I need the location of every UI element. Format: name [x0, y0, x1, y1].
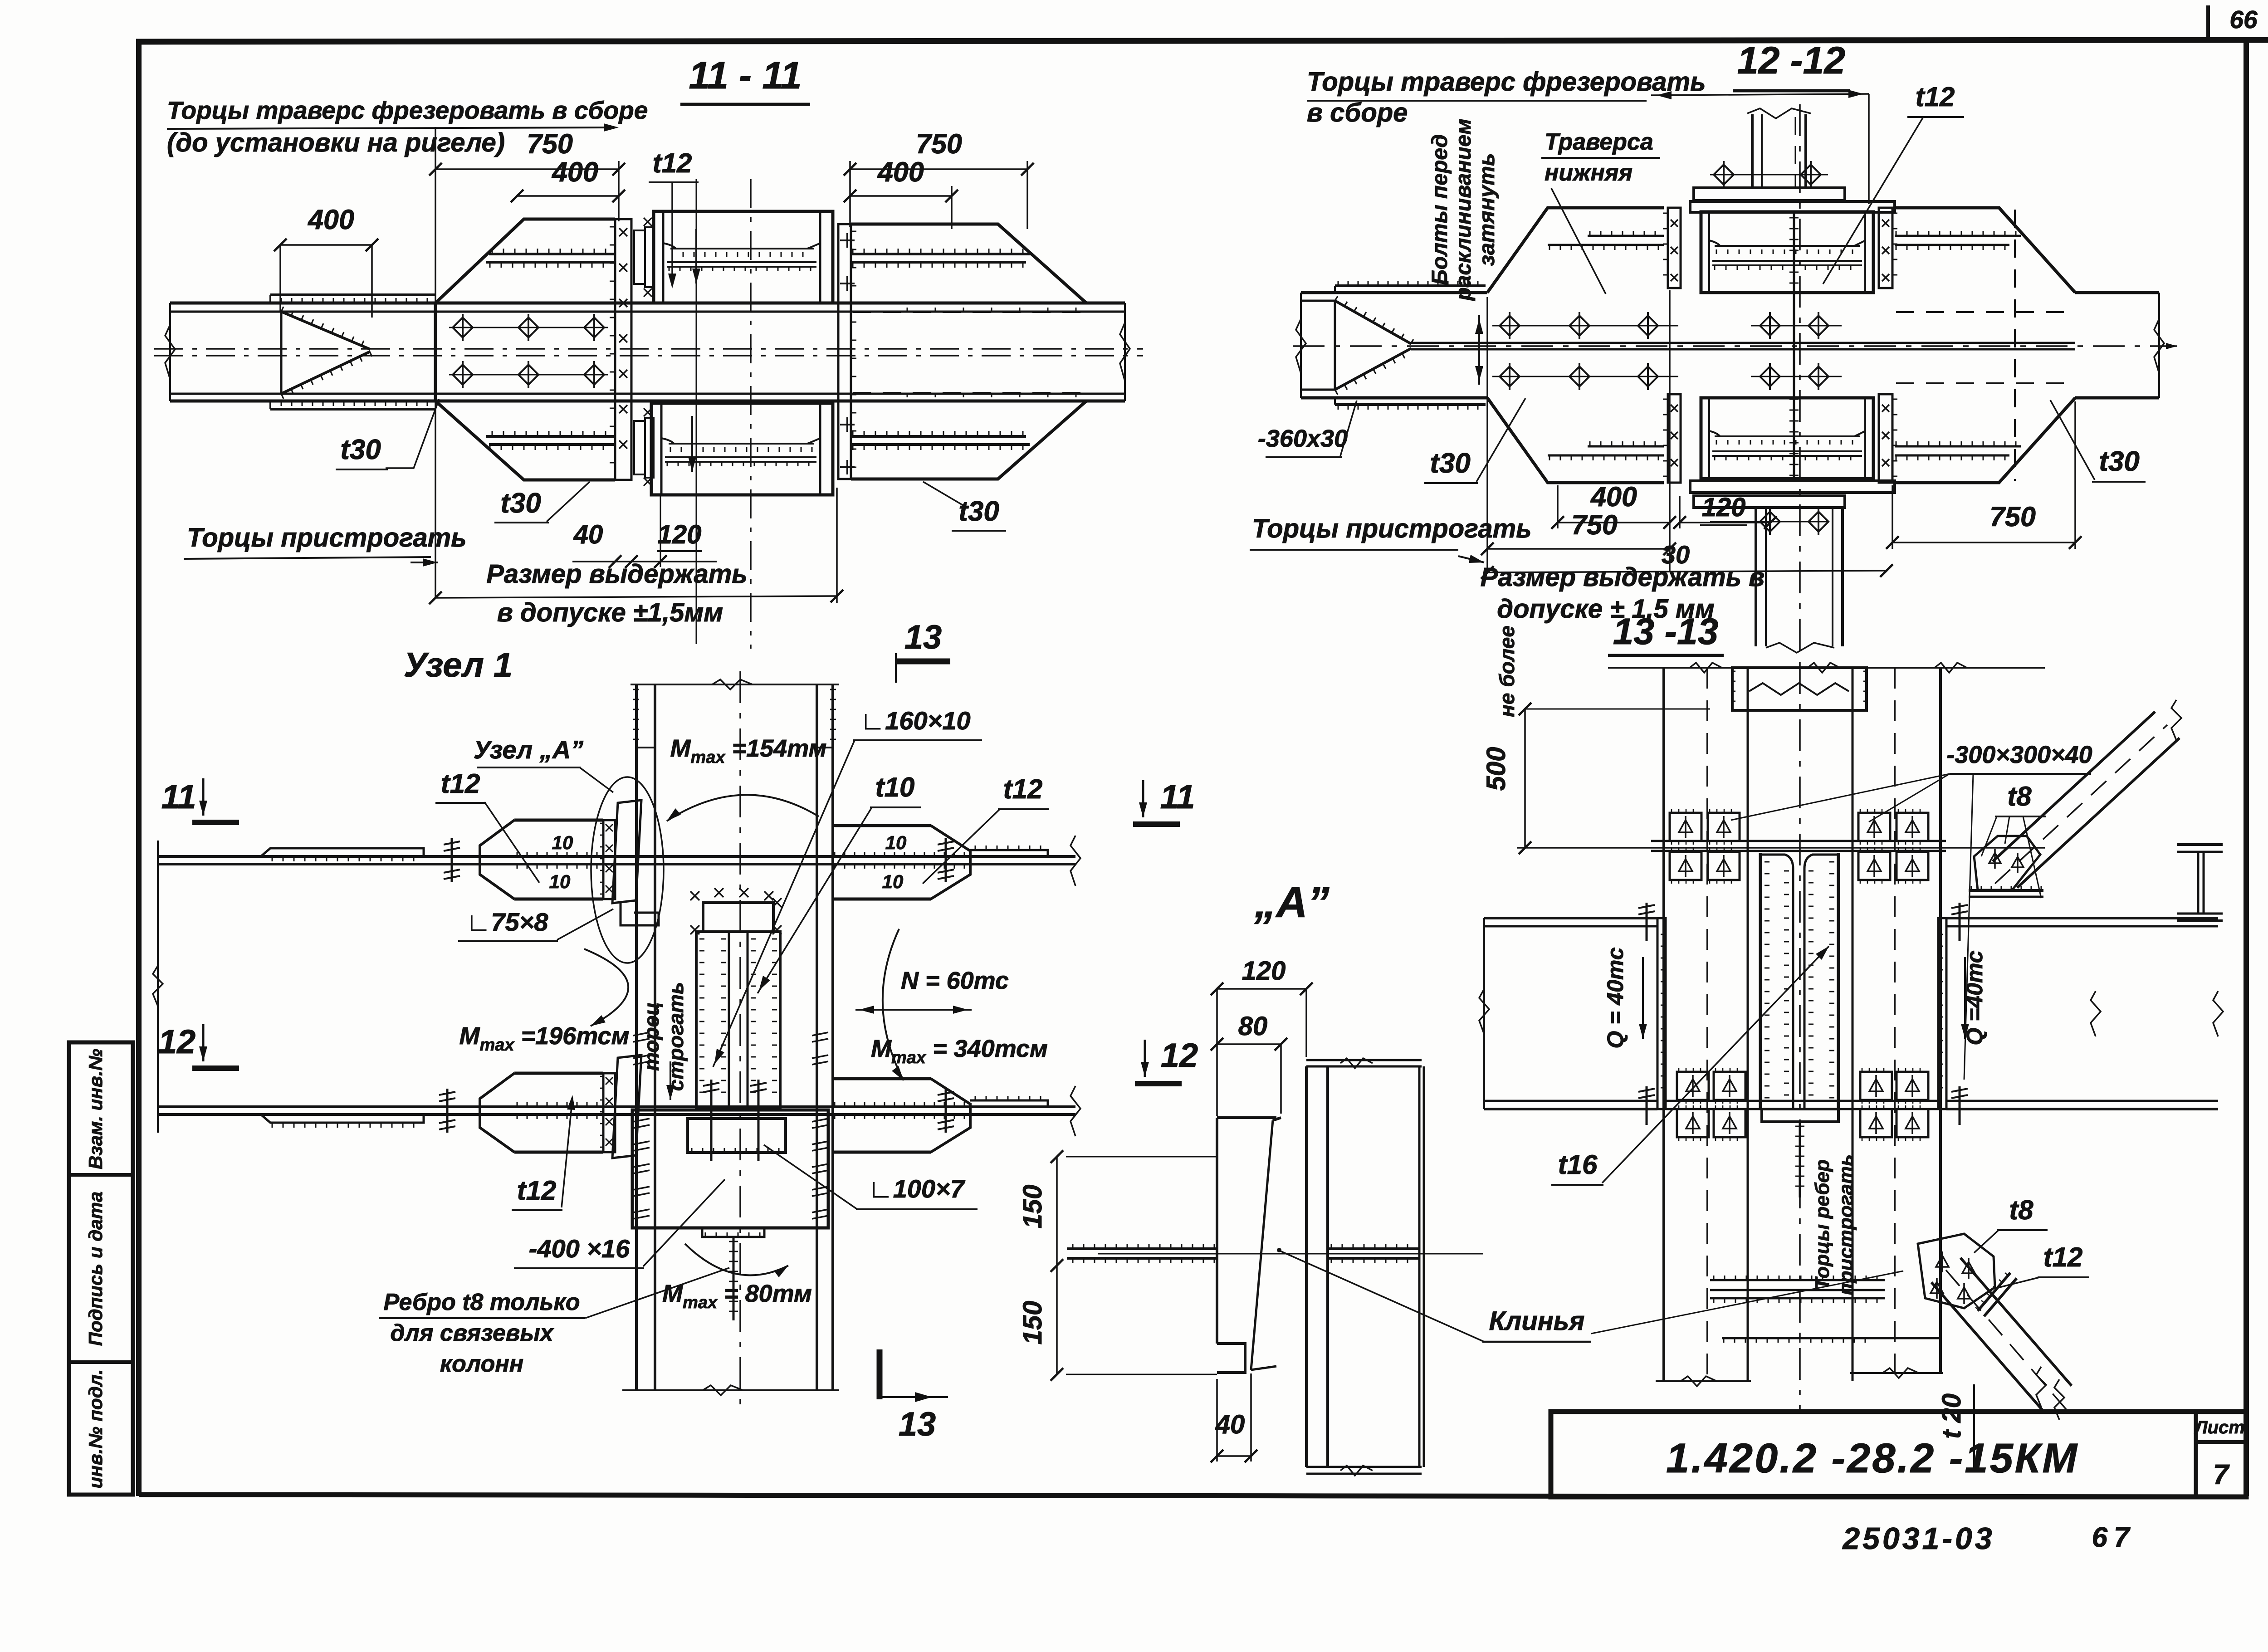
svg-text:120: 120	[1242, 956, 1286, 986]
svg-text:t30: t30	[2099, 446, 2140, 477]
svg-text:t12: t12	[653, 148, 692, 178]
left octagon 12-12	[1487, 208, 1664, 293]
lower column stub 12-12	[1694, 496, 1845, 508]
right hexagon fish plate upper beam	[833, 824, 931, 827]
svg-text:750: 750	[1571, 509, 1618, 540]
sheet border frame	[136, 40, 2268, 42]
bolts left beam end	[1646, 903, 1648, 941]
traverse flanges right octagon	[1895, 235, 2021, 237]
svg-text:Узел „А”: Узел „А”	[474, 735, 583, 764]
svg-text:t12: t12	[2043, 1242, 2083, 1272]
svg-text:Подпись и дата: Подпись и дата	[85, 1192, 106, 1346]
upper cover strip left	[261, 848, 424, 856]
stiffener bottom plate	[1762, 1109, 1838, 1122]
column stub I-beam torets strogat	[696, 932, 780, 1107]
svg-text:затянуть: затянуть	[1475, 153, 1499, 266]
svg-text:Траверса: Траверса	[1545, 129, 1653, 155]
beam right end 12-12	[2158, 293, 2160, 398]
svg-text:40: 40	[573, 520, 603, 549]
column beam 11-11 outline	[170, 302, 1125, 305]
column bottom edges 13-13	[1656, 1380, 1751, 1382]
right gusset octagon t30	[851, 224, 1086, 303]
cover strip below beam left	[270, 408, 435, 411]
I-beam section symbol right	[2177, 843, 2223, 846]
svg-text:13: 13	[899, 1405, 936, 1443]
svg-text:торец: торец	[640, 1002, 663, 1071]
right octagon 12-12	[1895, 208, 2075, 293]
centre axis 12-12	[1799, 104, 1801, 659]
fish mouth milled notch	[281, 312, 370, 349]
svg-text:Лист: Лист	[2194, 1417, 2245, 1437]
flange strip through column 13-13	[1666, 1100, 1938, 1102]
dimension 150 150 detail A	[1056, 1157, 1058, 1374]
bolts through stub base	[710, 1080, 713, 1161]
end plate -400x16	[632, 1110, 828, 1228]
uzel A ellipse	[591, 777, 664, 963]
svg-text:12: 12	[1161, 1036, 1198, 1074]
svg-text:N = 60тс: N = 60тс	[901, 967, 1009, 994]
label klinya leader into 13-13	[1591, 1271, 1903, 1334]
bolt right upper beam	[945, 838, 947, 882]
svg-text:Узел 1: Узел 1	[404, 646, 513, 684]
svg-text:750: 750	[916, 128, 962, 159]
hidden lines right octagon	[853, 311, 1082, 313]
section marker 13 bottom	[877, 1349, 883, 1399]
angle L100x7 inside	[688, 1119, 786, 1153]
svg-text:-300×300×40: -300×300×40	[1946, 741, 2092, 768]
svg-text:не более: не более	[1495, 626, 1519, 717]
level line of flange 13-13	[1517, 847, 2045, 849]
bolts at stub	[1710, 174, 1828, 176]
svg-text:Клинья: Клинья	[1489, 1306, 1585, 1336]
upper diagonal brace 13-13	[1993, 712, 2180, 888]
traverse flange edge inside octagon bottom	[489, 443, 615, 446]
svg-text:10: 10	[885, 832, 907, 853]
svg-text:t30: t30	[1430, 448, 1471, 479]
splice strips right 12-12	[1879, 208, 1892, 288]
svg-text:750: 750	[1989, 501, 2036, 532]
central weld seam through beam 12-12	[1793, 212, 1795, 479]
svg-text:Взам. инв.№: Взам. инв.№	[85, 1049, 106, 1169]
svg-text:-360х30: -360х30	[1258, 425, 1348, 452]
flange strip between plates	[1651, 840, 1946, 842]
flange stub left detail A	[1067, 1247, 1217, 1250]
svg-text:120: 120	[658, 520, 702, 549]
bolt rows left octagon	[449, 327, 608, 328]
central traverse bottom 11-11	[651, 403, 833, 495]
svg-text:пристрогать: пристрогать	[1835, 1154, 1857, 1295]
leader t12 to traverse	[671, 182, 673, 285]
right hexagon lower beam	[833, 1077, 931, 1080]
upper traverse top plate	[1690, 201, 1895, 212]
traverse flange edge inside octagon top	[489, 253, 615, 255]
svg-text:строгать: строгать	[664, 982, 688, 1091]
bolt lower beam left	[446, 1089, 449, 1133]
svg-text:t12: t12	[1003, 774, 1043, 804]
fish mouth 12-12	[1335, 301, 1411, 344]
flange stubs top of plate	[1306, 1059, 1422, 1061]
spacer plates 120 left top	[634, 230, 645, 284]
left hexagon lower beam	[514, 1072, 603, 1075]
svg-text:t16: t16	[1558, 1149, 1598, 1180]
beam centre plates	[1411, 342, 2075, 344]
svg-text:Ребро t8 только: Ребро t8 только	[383, 1289, 580, 1315]
bolts right beam end	[1959, 903, 1961, 941]
column splice welds top	[633, 689, 639, 739]
svg-text:Размер выдержать в: Размер выдержать в	[1481, 562, 1765, 592]
column flange piece detail A	[1217, 1116, 1276, 1119]
svg-text:„А”: „А”	[1254, 878, 1329, 927]
lower cover strip left	[261, 1114, 424, 1123]
svg-text:t8: t8	[2007, 781, 2032, 811]
svg-text:(до установки на ригеле): (до установки на ригеле)	[167, 128, 505, 157]
extension lines 12-12 dims	[1486, 297, 1488, 572]
wedge klinya piece	[1273, 1118, 1281, 1120]
svg-text:Размер выдержать: Размер выдержать	[486, 559, 748, 589]
svg-text:120: 120	[1702, 493, 1746, 522]
svg-text:10: 10	[552, 832, 573, 853]
svg-text:80: 80	[1238, 1012, 1268, 1041]
svg-text:13 -13: 13 -13	[1613, 611, 1719, 652]
L75x8 angle lower leg	[621, 903, 659, 925]
central traverse block bottom 12-12	[1701, 398, 1873, 479]
central traverse top 11-11	[654, 211, 833, 303]
left beam 13-13	[1484, 917, 1657, 919]
splice strips left 12-12	[1668, 208, 1681, 288]
svg-text:400: 400	[551, 156, 598, 187]
connection plates -300x300x40 second row	[1670, 852, 1701, 880]
svg-text:10: 10	[882, 871, 904, 892]
central traverse block top 12-12	[1701, 212, 1873, 293]
left hexagon fish plate upper beam	[514, 819, 603, 822]
svg-text:для связевых: для связевых	[390, 1320, 554, 1346]
lower rib line 13-13	[1722, 1337, 1940, 1339]
svg-text:t30: t30	[340, 434, 381, 465]
svg-text:500: 500	[1481, 747, 1511, 791]
beam right end break	[1120, 323, 1130, 381]
svg-text:67: 67	[2092, 1522, 2136, 1553]
connection plates middle rows	[1677, 1072, 1709, 1100]
top cut line 13-13	[1608, 667, 2045, 669]
traverse flanges in left octagon	[1588, 235, 1664, 237]
svg-text:13: 13	[904, 618, 942, 656]
svg-text:∟75×8: ∟75×8	[466, 908, 549, 936]
svg-text:150: 150	[1018, 1185, 1047, 1229]
upper stub base plate	[1694, 188, 1845, 200]
svg-text:Q = 40тс: Q = 40тс	[1603, 947, 1628, 1048]
central stiffener assembly 13-13	[1760, 853, 1838, 1109]
left gusset octagon t30	[435, 219, 615, 303]
cap plate top 13-13	[1732, 668, 1867, 710]
svg-text:12: 12	[158, 1023, 196, 1061]
lower beam right break	[1070, 1086, 1080, 1136]
brace seat plate upper	[1969, 889, 2043, 892]
arrow between bolt rows	[1478, 315, 1480, 385]
svg-text:Торцы пристрогать: Торцы пристрогать	[187, 523, 467, 552]
beam centreline 12-12	[1293, 345, 2177, 347]
traverse flange edges right octagon	[851, 253, 1030, 255]
svg-text:в сборе: в сборе	[1307, 98, 1408, 127]
cover strip right of hexagon	[970, 850, 1048, 856]
svg-text:в допуске ±1,5мм: в допуске ±1,5мм	[497, 598, 723, 627]
svg-text:Торцы траверс фрезеровать: Торцы траверс фрезеровать	[1307, 67, 1706, 97]
centre axis vertical 11-11	[750, 179, 752, 649]
top plate of stub with x welds	[703, 903, 773, 932]
upper column stub 12-12	[1751, 114, 1754, 188]
svg-text:11 - 11: 11 - 11	[689, 54, 802, 97]
svg-text:400: 400	[307, 204, 354, 235]
svg-text:-400 ×16: -400 ×16	[529, 1234, 630, 1263]
bolt rows 12-12	[1492, 325, 1678, 327]
column centreline	[739, 671, 741, 1410]
svg-text:Торцы ребер: Торцы ребер	[1811, 1159, 1833, 1290]
brace gusset head lower	[1918, 1234, 1995, 1308]
svg-text:12 -12: 12 -12	[1737, 39, 1845, 82]
bolts at right strip	[840, 239, 855, 241]
brace end plate lower	[1978, 1273, 2010, 1311]
svg-text:t 20: t 20	[1937, 1393, 1966, 1439]
web line right detail A	[1418, 1066, 1421, 1467]
lower diagonal brace 13-13	[1931, 1258, 2072, 1410]
hidden splice line right	[2014, 210, 2016, 481]
svg-text:40: 40	[1215, 1410, 1245, 1439]
column centre axis 13-13	[1799, 662, 1801, 1410]
splice filler at column face upper left	[603, 820, 615, 899]
section line vertical	[696, 179, 697, 644]
splice filler lower left	[603, 1073, 615, 1152]
L75x8 wedge bar lower	[612, 1055, 641, 1158]
svg-text:Торцы пристрогать: Торцы пристрогать	[1252, 514, 1532, 543]
dimension razmer vyderzhat 12-12	[1487, 571, 1887, 572]
extension lines top dims	[435, 127, 436, 598]
svg-text:инв.№ подл.: инв.№ подл.	[85, 1369, 106, 1489]
dim arrows milled faces 12-12	[1651, 94, 1869, 95]
brace gusset head upper	[1974, 836, 2040, 890]
flange centreline detail A	[1098, 1253, 1483, 1255]
beam member 12-12	[1301, 291, 1487, 294]
left stamp column boxes	[69, 1042, 133, 1495]
column shafts 13-13	[1662, 668, 1665, 1381]
column of uzel 1	[635, 684, 638, 1390]
svg-text:400: 400	[877, 156, 924, 187]
weld marks along column flanges at plate	[633, 1119, 650, 1122]
svg-text:∟100×7: ∟100×7	[868, 1174, 966, 1203]
svg-text:t30: t30	[958, 496, 999, 527]
upper beam flange plate	[158, 855, 1075, 858]
svg-text:25031-03: 25031-03	[1842, 1521, 1994, 1556]
hidden lines right octagon 12-12	[1896, 311, 2068, 313]
L75x8 wedge bar upper	[612, 800, 641, 903]
-360x30 strips	[1335, 284, 1486, 287]
weld stub below stiffener	[1799, 1122, 1801, 1197]
bolt on upper beam left	[451, 838, 453, 882]
rib plate and weld below end plate	[702, 1228, 764, 1237]
svg-text:Болты перед: Болты перед	[1428, 134, 1452, 285]
flange stubs bottom of plate	[1306, 1466, 1422, 1468]
svg-text:750: 750	[527, 128, 573, 159]
left beam cut edge	[157, 841, 159, 1133]
svg-text:10: 10	[549, 871, 571, 892]
svg-text:∟160×10: ∟160×10	[860, 706, 970, 735]
svg-text:7: 7	[2213, 1459, 2230, 1491]
bolt right lower beam	[945, 1089, 947, 1133]
lower beam flange plate	[158, 1105, 1075, 1108]
svg-text:Торцы траверс фрезеровать в сб: Торцы траверс фрезеровать в сборе	[167, 96, 648, 124]
beam centrelines (two plates)	[154, 348, 1143, 350]
svg-text:t12: t12	[517, 1175, 557, 1206]
svg-text:150: 150	[1018, 1301, 1047, 1345]
svg-text:нижняя: нижняя	[1545, 160, 1633, 186]
svg-text:расклиниванием: расклиниванием	[1452, 118, 1476, 301]
flange stub right detail A	[1328, 1247, 1419, 1250]
svg-text:колонн: колонн	[440, 1351, 523, 1377]
svg-text:t12: t12	[441, 768, 480, 799]
svg-text:t30: t30	[500, 488, 541, 519]
title block	[1551, 1412, 2246, 1497]
upper beam right break	[1070, 836, 1080, 886]
splice strip left of centre 40mm	[615, 219, 631, 480]
spacer plates 120 left bottom	[634, 421, 645, 474]
bottom flange lines 13-13	[1710, 1279, 1885, 1281]
svg-text:t12: t12	[1916, 82, 1955, 112]
svg-text:1.420.2 -28.2 -15КМ: 1.420.2 -28.2 -15КМ	[1666, 1435, 2079, 1481]
page number 66 top right	[2206, 5, 2210, 40]
splice strip right of centre 40mm	[838, 224, 851, 479]
beam break left	[165, 325, 175, 379]
svg-text:t8: t8	[2009, 1195, 2033, 1225]
lower traverse bottom plate	[1690, 481, 1895, 493]
cover strip above beam left	[270, 293, 435, 296]
connection plates -300x300x40 upper row	[1670, 813, 1701, 841]
plate t12 edge view	[1305, 1066, 1308, 1467]
svg-text:400: 400	[1590, 481, 1637, 512]
svg-text:11: 11	[1160, 778, 1195, 816]
svg-text:11: 11	[161, 778, 196, 816]
svg-text:t10: t10	[875, 772, 915, 802]
right beam 13-13	[1946, 917, 2218, 919]
cover strip right lower	[970, 1100, 1048, 1107]
svg-text:66: 66	[2229, 5, 2258, 34]
